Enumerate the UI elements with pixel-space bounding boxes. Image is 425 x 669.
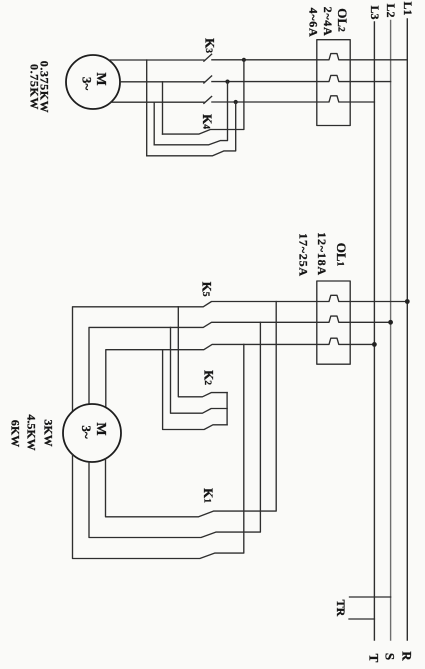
contactor K5 pole1: elbow from motor M2 top, blade, to OL1 heater1, to R bus (73, 295, 408, 411)
overload relay OL2 body (317, 40, 350, 126)
svg-text:3KW: 3KW (42, 419, 56, 446)
junction dot line3 x T bus (372, 342, 377, 347)
contactor K1 pole3 (73, 344, 244, 558)
svg-text:R: R (399, 651, 414, 661)
svg-text:17~25A: 17~25A (297, 233, 311, 277)
svg-text:T: T (366, 654, 381, 663)
contactor K4 pole3 (147, 102, 236, 156)
overload relay OL1 body (317, 281, 350, 364)
contactor K4 pole1 (163, 60, 244, 134)
junction dot line2 x S bus (388, 320, 393, 325)
motor M2 circle (63, 404, 121, 462)
contactor K1 pole2 (89, 322, 260, 537)
svg-text:2~4A: 2~4A (321, 7, 335, 37)
contactor K5 pole3 (106, 338, 375, 407)
junction dot w3 x K4 (234, 100, 238, 104)
wire w2 K3 to OL2 to S bus with OL2 heater2 bump (212, 75, 391, 81)
contactor K3 pole1 blade (204, 54, 212, 61)
wire w3 motor M1 to K3 pole3 (111, 101, 204, 103)
svg-text:3~: 3~ (79, 425, 94, 439)
bus L3/T (373, 22, 375, 640)
contactor K3 pole2 blade (204, 76, 212, 83)
svg-text:12~18A: 12~18A (315, 232, 329, 276)
svg-text:TR: TR (334, 600, 348, 617)
transformer TR stub from T bus (349, 618, 374, 620)
junction dot line1 x R bus (405, 299, 410, 304)
contactor K2 pole3 (163, 350, 228, 430)
contactor K2 pole2 (171, 327, 228, 413)
svg-text:M: M (93, 422, 108, 435)
svg-text:6KW: 6KW (9, 420, 23, 447)
K2 star point bar (226, 393, 228, 425)
contactor K1 pole1: from motor M2 bottom wire to line1 vertical (106, 302, 277, 517)
svg-text:3~: 3~ (80, 77, 95, 91)
svg-text:4.5KW: 4.5KW (25, 414, 39, 450)
svg-text:4~6A: 4~6A (306, 8, 320, 38)
wire w1 K3 to OL2 to R bus with OL2 heater1 bump (212, 54, 407, 60)
svg-text:S: S (382, 653, 397, 660)
bus L1/R (406, 19, 408, 640)
wire w1 motor M1 to K3 pole1 (109, 59, 204, 61)
bus L2/S (390, 21, 392, 641)
svg-text:L1: L1 (401, 1, 415, 15)
svg-text:0.75KW: 0.75KW (28, 64, 42, 110)
junction dot w1 x K4 (242, 58, 246, 62)
contactor K2 pole1: tap on K5 ext1 down to blade and star bar (178, 307, 227, 397)
svg-text:L2: L2 (384, 3, 398, 17)
svg-text:L3: L3 (368, 5, 382, 19)
contactor K3 pole3 blade (204, 96, 212, 103)
junction dot w2 x K4 (225, 80, 229, 84)
K4 tap vertical from w2 to K4 row1 (162, 82, 164, 134)
wire w2 motor M1 to K3 pole2 (120, 81, 204, 83)
motor M1 circle (66, 55, 120, 109)
contactor K5 pole2 (89, 316, 391, 404)
transformer TR stub from S bus (350, 596, 391, 598)
K4 tap vertical from w1 to K4 row3 (146, 60, 148, 156)
wire w3 K3 to OL2 to T bus with OL2 heater3 bump (212, 96, 375, 102)
K4 tap vertical from w3 to K4 row2 (153, 102, 155, 145)
contactor K4 pole2 (154, 82, 227, 145)
